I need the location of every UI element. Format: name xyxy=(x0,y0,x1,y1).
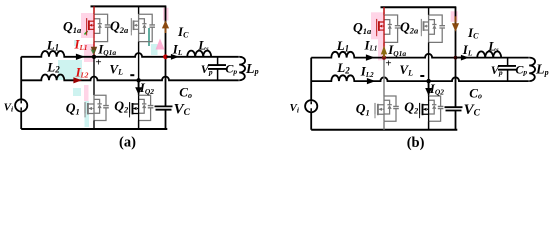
wire: Q2a drain lead from top rail (a) xyxy=(138,6,140,14)
wire: Q1a source lead down to phase-1 node (red) (a) xyxy=(93,42,95,57)
svg-text:IC: IC xyxy=(177,24,189,40)
transistor Q1 (b) xyxy=(375,96,399,121)
node: phase-2 switching node xyxy=(426,79,430,83)
svg-text:Q1: Q1 xyxy=(66,100,80,116)
highlight: pink conduction band behind Q1a (b) xyxy=(371,12,385,39)
svg-text:Q2a: Q2a xyxy=(400,20,419,36)
svg-text:Vi: Vi xyxy=(4,101,14,113)
arrow: IC current direction (upward, brown) (a) xyxy=(165,27,167,33)
wire: output rail vertical carrying IC down to Co (a) xyxy=(165,6,167,106)
wire: top rail (a) xyxy=(91,5,167,7)
arrow: IQ1a current direction (upward) (b) xyxy=(381,46,387,55)
svg-text:IL: IL xyxy=(462,42,473,58)
highlight: pink band along Q1a source lead to node (b) xyxy=(378,39,385,60)
arrow: IL current direction (rightward) xyxy=(457,57,463,59)
label - of VL xyxy=(420,75,424,77)
node: output junction on wire1 xyxy=(163,54,168,59)
svg-text:+: + xyxy=(385,57,391,69)
highlight: pink conduction band behind Q1a (a) xyxy=(81,13,95,38)
svg-text:VL: VL xyxy=(399,62,413,77)
highlight: pink band at phase-1 node (a) xyxy=(84,44,94,62)
highlight: pink band above IC arrow (b) xyxy=(451,11,458,21)
wire: Q1a drain lead from top rail (red) (a) xyxy=(93,6,95,14)
inductor Lp (parallel/coupling coil) xyxy=(529,58,535,82)
wire: Q2 source lead to bottom rail (b) xyxy=(428,121,430,130)
svg-text:VC: VC xyxy=(174,101,191,118)
svg-text:Lp: Lp xyxy=(245,62,259,77)
arrow: IQ2 current direction (downward) xyxy=(138,81,140,88)
wire: phase wire 2 with inductor L2 coil and crossover hops (b) xyxy=(311,75,529,81)
wire: Q1a source lead down to phase-1 node (red) (b) xyxy=(383,42,385,57)
arrow: IQ2 current direction (downward) xyxy=(428,82,430,89)
highlight: teal path mark right of Q2a (a) xyxy=(148,28,150,46)
arrow: IL1 current direction xyxy=(366,54,375,60)
highlight: pink band above IC arrow (a) xyxy=(163,8,169,21)
svg-text:Co: Co xyxy=(469,86,482,101)
transistor Q2a (b) xyxy=(421,15,445,42)
svg-text:IL1: IL1 xyxy=(74,37,88,52)
wire: bottom rail (b) xyxy=(311,129,457,131)
wire: Q2 source lead to bottom rail (a) xyxy=(138,121,140,130)
highlight: pink strip along Q1 drain lead (a) xyxy=(84,85,89,101)
svg-text:Ls: Ls xyxy=(197,38,209,53)
highlight: green gate mark on Q1a (a) xyxy=(85,31,88,35)
capacitor Co xyxy=(155,106,173,109)
highlight: cyan strip along Q1 lead to bottom rail (a) xyxy=(85,101,90,127)
arrow: IC current direction (downward, brown) (b) xyxy=(455,16,457,23)
highlight: cyan tick near IL1 label (a) xyxy=(74,40,78,46)
svg-text:Vi: Vi xyxy=(290,102,300,114)
svg-text:IL2: IL2 xyxy=(360,64,374,79)
wire: Co bottom lead to bottom rail (b) xyxy=(455,111,457,130)
transistor Q1a (red, highlighted) (b) xyxy=(377,15,401,42)
wire: output rail vertical carrying IC down to Co (b) xyxy=(455,7,457,107)
wire: bottom rail (a) xyxy=(21,128,167,130)
wire: phase wire 2 with inductor L2 coil and crossover hops (a) xyxy=(21,74,239,80)
svg-text:IL1: IL1 xyxy=(364,38,378,53)
node: phase-2 switching node xyxy=(136,78,140,82)
svg-text:IQ1a: IQ1a xyxy=(97,41,116,57)
highlight: pink triangle arrow toward output node (a) xyxy=(156,39,165,50)
svg-text:Ls: Ls xyxy=(487,38,499,53)
wire: Q2 drain lead from phase-2 node (b) xyxy=(428,81,430,96)
wire: top rail (b) xyxy=(381,6,457,8)
svg-text:VC: VC xyxy=(464,102,481,119)
arrow: IQ1a current direction (downward) (a) xyxy=(91,47,97,55)
svg-text:Cp: Cp xyxy=(225,62,237,76)
node: phase-1 switching node xyxy=(382,55,386,59)
svg-text:Q2: Q2 xyxy=(114,99,129,115)
svg-text:Co: Co xyxy=(179,85,192,100)
svg-text:Q2a: Q2a xyxy=(110,19,129,35)
wire: Q2a drain lead from top rail (b) xyxy=(428,7,430,15)
wire: Q2 drain lead from phase-2 node (a) xyxy=(138,80,140,95)
wire: Q2a source lead down to phase-2 node (b) xyxy=(428,42,430,81)
svg-text:IQ1a: IQ1a xyxy=(387,42,406,58)
arrow: IL current direction (rightward) xyxy=(167,56,173,58)
wire: left rail / input branch (a) xyxy=(20,57,22,129)
label - of VL xyxy=(130,74,134,76)
transistor Q1a (red, highlighted) (a) xyxy=(87,14,111,41)
inductor Lp (parallel/coupling coil) xyxy=(239,57,245,81)
transistor Q2 (black, conducting) (a) xyxy=(130,95,154,120)
wire: phase wire 1 with inductor L1 coil and crossover hop (b) xyxy=(311,52,529,58)
wire: Q1 drain lead from phase-1 node (b) xyxy=(383,58,385,96)
wire: Q1a drain lead from top rail (red) (b) xyxy=(383,7,385,15)
svg-text:Cp: Cp xyxy=(515,62,527,76)
node: phase-1 switching node xyxy=(92,55,96,59)
svg-text:L2: L2 xyxy=(336,60,350,75)
svg-text:Q2: Q2 xyxy=(404,99,419,115)
transistor Q2 (black, conducting) (b) xyxy=(420,96,444,121)
capacitor Co xyxy=(445,107,463,110)
transistor Q1 (a) xyxy=(85,95,109,120)
arrow: IL2 current direction (dark red) (a) xyxy=(73,77,82,83)
highlight: cyan patch left of Q1 (a) xyxy=(73,88,81,96)
svg-text:IL: IL xyxy=(172,41,183,57)
wire: Q1 drain lead from phase-1 node (a) xyxy=(93,57,95,95)
source Vi (circle symbol) xyxy=(305,100,317,112)
source Vi (circle symbol) xyxy=(15,99,27,111)
capacitor Cp xyxy=(217,57,219,81)
capacitor Cp xyxy=(507,58,509,82)
node: output junction on wire1 xyxy=(454,56,458,60)
wire: Q1 source lead to bottom rail (b) xyxy=(383,121,385,130)
svg-text:L1: L1 xyxy=(46,37,59,52)
svg-text:Q1a: Q1a xyxy=(63,19,82,35)
svg-text:VL: VL xyxy=(109,61,123,76)
svg-text:+: + xyxy=(95,57,101,69)
wire: Co bottom lead to bottom rail (a) xyxy=(165,110,167,129)
wire: Q2a source lead down to phase-2 node (a) xyxy=(138,42,140,81)
arrow: IL1 current direction xyxy=(76,54,85,60)
arrow: IL2 current direction (b) xyxy=(367,78,376,84)
svg-text:L1: L1 xyxy=(336,38,349,53)
svg-text:Q1a: Q1a xyxy=(353,20,372,36)
highlight: cyan block between wire1 and wire2 (a) xyxy=(58,60,82,80)
wire: left rail / input branch (b) xyxy=(310,58,312,130)
inductor Ls (series inductor) xyxy=(477,51,501,57)
svg-text:IQ2: IQ2 xyxy=(139,80,154,96)
svg-text:(b): (b) xyxy=(407,135,425,151)
svg-text:IC: IC xyxy=(467,25,479,41)
svg-text:IQ2: IQ2 xyxy=(429,81,444,97)
inductor Ls (series inductor) xyxy=(187,51,211,57)
wire: Q1 source lead to bottom rail (a) xyxy=(93,121,95,130)
svg-text:Lp: Lp xyxy=(535,63,549,78)
highlight: cyan strip below Q2a capacitor (a) xyxy=(151,44,158,55)
transistor Q2a (a) xyxy=(131,14,155,41)
svg-text:Q1: Q1 xyxy=(356,101,370,117)
wire: phase wire 1 with inductor L1 coil and crossover hop (a) xyxy=(21,51,239,57)
svg-text:(a): (a) xyxy=(119,134,136,150)
